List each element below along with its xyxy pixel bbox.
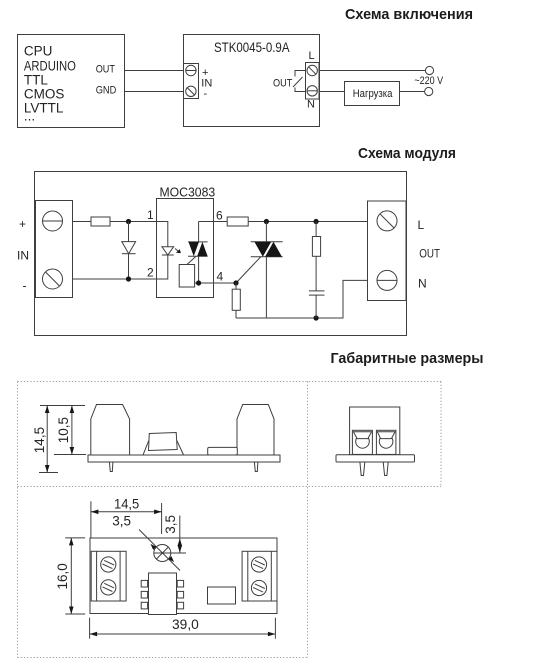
svg-text:OUT: OUT	[96, 64, 116, 76]
svg-text:CMOS: CMOS	[24, 86, 65, 101]
module outline	[35, 172, 407, 336]
bottom rail	[236, 280, 368, 318]
mains terminal top	[425, 66, 433, 74]
svg-text:16,0: 16,0	[55, 563, 70, 589]
svg-text:Схема включения: Схема включения	[345, 6, 473, 23]
wire pin6 out	[214, 221, 228, 223]
svg-text:STK0045-0.9A: STK0045-0.9A	[214, 40, 290, 55]
junction rail	[314, 315, 319, 320]
dim 16,0	[55, 538, 85, 614]
svg-text:CPU: CPU	[24, 44, 53, 59]
gate wire diagonal	[236, 257, 261, 284]
svg-text:ARDUINO: ARDUINO	[24, 59, 76, 74]
resistor R1	[91, 217, 110, 226]
svg-text:MOC3083: MOC3083	[160, 185, 216, 199]
svg-text:+: +	[19, 217, 26, 231]
svg-text:14,5: 14,5	[32, 427, 47, 453]
end view opening left	[352, 430, 372, 454]
svg-text:L: L	[418, 218, 425, 232]
side view IC socket	[143, 441, 184, 455]
svg-text:4: 4	[217, 270, 224, 284]
top view PCB	[90, 538, 277, 614]
svg-text:3,5: 3,5	[112, 513, 131, 528]
wire pin4 to gate node	[214, 282, 237, 284]
output terminal block	[306, 63, 320, 100]
end view pin right	[383, 462, 388, 476]
LED inside MOC	[157, 222, 174, 280]
dim 3,5 vertical	[163, 515, 182, 553]
svg-text:6: 6	[216, 209, 223, 223]
top view right terminal	[242, 551, 277, 601]
top view component	[208, 587, 236, 604]
photon arrow	[175, 249, 180, 253]
top view left terminal	[91, 551, 126, 601]
side view PCB	[88, 455, 280, 462]
pin6 internal wire	[199, 221, 214, 223]
svg-text:10,5: 10,5	[56, 417, 71, 443]
side view pin left	[109, 462, 113, 472]
end view terminal body	[350, 407, 400, 455]
svg-text:~220 V: ~220 V	[414, 75, 443, 87]
side view IC body	[149, 433, 178, 451]
wire GND	[125, 91, 186, 93]
svg-text:N: N	[418, 277, 427, 291]
svg-text:-: -	[23, 279, 27, 293]
svg-text:GND: GND	[96, 85, 117, 97]
svg-text:14,5: 14,5	[114, 497, 139, 512]
svg-text:OUT: OUT	[419, 247, 440, 261]
junction node bottom	[126, 276, 131, 281]
junction gate node	[233, 280, 238, 285]
wire input top	[73, 221, 92, 223]
snubber resistor R4	[312, 222, 320, 291]
wire OUT	[125, 70, 186, 72]
mounting hole	[139, 530, 186, 571]
side view left terminal	[91, 405, 130, 456]
input terminal block	[184, 64, 199, 99]
svg-text:OUT: OUT	[273, 78, 293, 90]
svg-text:3,5: 3,5	[163, 515, 178, 534]
end view pin left	[360, 462, 365, 476]
input terminal block	[36, 201, 73, 298]
svg-text:L: L	[309, 50, 315, 62]
optocoupler U2 MOC3083	[157, 185, 216, 297]
junction snubber top	[314, 219, 319, 224]
wire load to mains	[400, 91, 425, 93]
wire L to mains	[320, 70, 426, 72]
dim 14,5 side	[32, 406, 85, 473]
load box Нагрузка	[345, 82, 400, 106]
svg-text:Габаритные размеры: Габаритные размеры	[331, 350, 484, 367]
svg-text:-: -	[204, 88, 208, 100]
svg-text:39,0: 39,0	[172, 617, 199, 632]
output terminal block	[368, 201, 407, 301]
triac T1	[251, 222, 283, 319]
side view pin right	[254, 462, 258, 472]
gate resistor R3	[232, 283, 240, 318]
end view PCB	[336, 455, 415, 462]
diode D1	[122, 222, 136, 280]
dim 14,5 top	[91, 497, 162, 538]
svg-text:1: 1	[147, 208, 154, 222]
svg-text:N: N	[307, 99, 315, 111]
svg-text:TTL: TTL	[24, 73, 48, 88]
node: CPU source box	[18, 35, 125, 128]
junction triac top	[264, 219, 269, 224]
capacitor C1	[309, 291, 325, 318]
gate resistor inside MOC	[179, 256, 196, 287]
wire R2 to L rail	[248, 221, 367, 223]
wire input bottom	[73, 278, 157, 280]
svg-text:2: 2	[147, 266, 154, 280]
label + IN -	[201, 67, 212, 100]
switch contact	[293, 71, 306, 92]
side view right terminal	[237, 405, 274, 456]
mains terminal bottom	[425, 87, 433, 95]
svg-text:Нагрузка: Нагрузка	[353, 88, 393, 100]
wire N to load	[320, 91, 345, 93]
end view opening right	[376, 430, 396, 454]
junction node top	[126, 219, 131, 224]
pin4 internal wire	[195, 280, 214, 285]
svg-text:Схема модуля: Схема модуля	[358, 145, 456, 162]
svg-text:IN: IN	[17, 249, 29, 263]
top view IC body	[149, 573, 177, 615]
dim 39,0	[90, 617, 276, 639]
relay module U1 STK0045-0.9A	[184, 35, 320, 127]
svg-text:...: ...	[24, 109, 35, 124]
side view flat component	[208, 447, 238, 455]
top view IC pins	[141, 580, 183, 608]
dim 10,5 side	[54, 406, 86, 455]
wire R1 to pin1	[110, 221, 156, 223]
resistor R2	[227, 217, 248, 226]
phototriac inside MOC	[188, 222, 208, 284]
